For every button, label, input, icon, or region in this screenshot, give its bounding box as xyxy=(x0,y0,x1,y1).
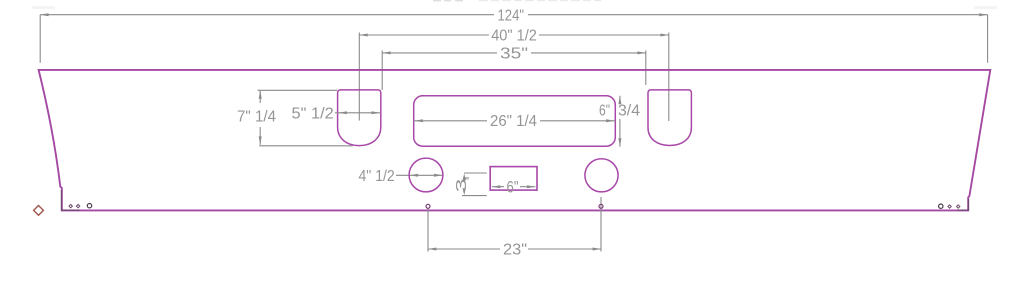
dimension 7" 1/4 arrowheads xyxy=(259,90,262,145)
center small rectangle cutout xyxy=(490,167,537,191)
bottom-right small open circle xyxy=(939,204,943,208)
svg-text:26" 1/4: 26" 1/4 xyxy=(490,113,537,130)
clipped title text remnant xyxy=(433,0,463,1)
dimension 6" (rect width) arrowheads xyxy=(492,185,535,188)
svg-text:7" 1/4: 7" 1/4 xyxy=(237,109,276,126)
faint ghost marks top-right xyxy=(974,6,997,9)
faint ghost marks top-left xyxy=(32,6,55,9)
dimension 4" 1/2 arrowheads xyxy=(410,174,443,177)
bottom-left rivet dot 2 xyxy=(76,204,79,207)
right tow-hook cutout xyxy=(648,90,691,146)
dimension 40" 1/2 arrowheads xyxy=(359,34,669,37)
dimension 35" arrowheads xyxy=(382,51,646,54)
dimension 6" 3/4 arrowheads xyxy=(618,96,621,147)
dimension 6" (rect width) line xyxy=(492,186,535,188)
left mounting hole (small circle on bottom edge) xyxy=(426,204,430,208)
bottom-left small open circle xyxy=(87,204,91,208)
bottom-right rivet dot 2 xyxy=(957,205,960,208)
dimension 23" lines xyxy=(428,197,601,252)
svg-text:4" 1/2: 4" 1/2 xyxy=(359,168,395,185)
dimension 124" arrowheads xyxy=(40,13,987,16)
dimension 35" line xyxy=(382,51,646,91)
dimension 26" 1/4 arrowheads xyxy=(415,119,615,122)
svg-text:35": 35" xyxy=(500,45,528,62)
left bolt circle xyxy=(409,158,443,192)
dimension 3" (rect height) arrowheads xyxy=(463,174,466,196)
datum diamond marker xyxy=(34,206,44,216)
dimension 23" arrowheads xyxy=(428,248,601,251)
svg-text:6": 6" xyxy=(507,178,519,197)
dimension 3" (rect height) lines xyxy=(462,173,487,196)
dark corner accents on bottom edge xyxy=(62,190,969,210)
bottom-right rivet dot 1 xyxy=(948,205,951,208)
svg-text:23": 23" xyxy=(503,242,527,259)
bottom-left rivet dot 1 xyxy=(69,204,72,207)
right bolt circle xyxy=(585,159,618,192)
dimension 3" inch quote marks xyxy=(465,177,466,180)
dimension 7" 1/4 line xyxy=(258,90,353,146)
dimension 124" line xyxy=(40,15,987,63)
svg-text:3/4: 3/4 xyxy=(618,103,640,120)
svg-text:124": 124" xyxy=(498,7,525,24)
dimension 4" 1/2 line xyxy=(396,174,442,176)
right mounting hole (small circle on bottom edge) xyxy=(599,204,603,208)
svg-text:3: 3 xyxy=(453,179,470,193)
dimension 5" 1/2 arrowheads xyxy=(339,111,380,114)
svg-text:5" 1/2: 5" 1/2 xyxy=(292,105,334,122)
svg-text:6": 6" xyxy=(599,103,610,120)
dimension 40" 1/2 line xyxy=(359,33,669,122)
svg-text:40" 1/2: 40" 1/2 xyxy=(491,28,537,45)
dimension 5" 1/2 line xyxy=(335,112,380,114)
bumper outline xyxy=(39,70,991,211)
dimension 6" 3/4 line xyxy=(619,96,621,147)
dimension 26" 1/4 line xyxy=(414,120,616,122)
license plate cutout xyxy=(414,96,616,146)
left tow-hook cutout xyxy=(338,90,381,146)
